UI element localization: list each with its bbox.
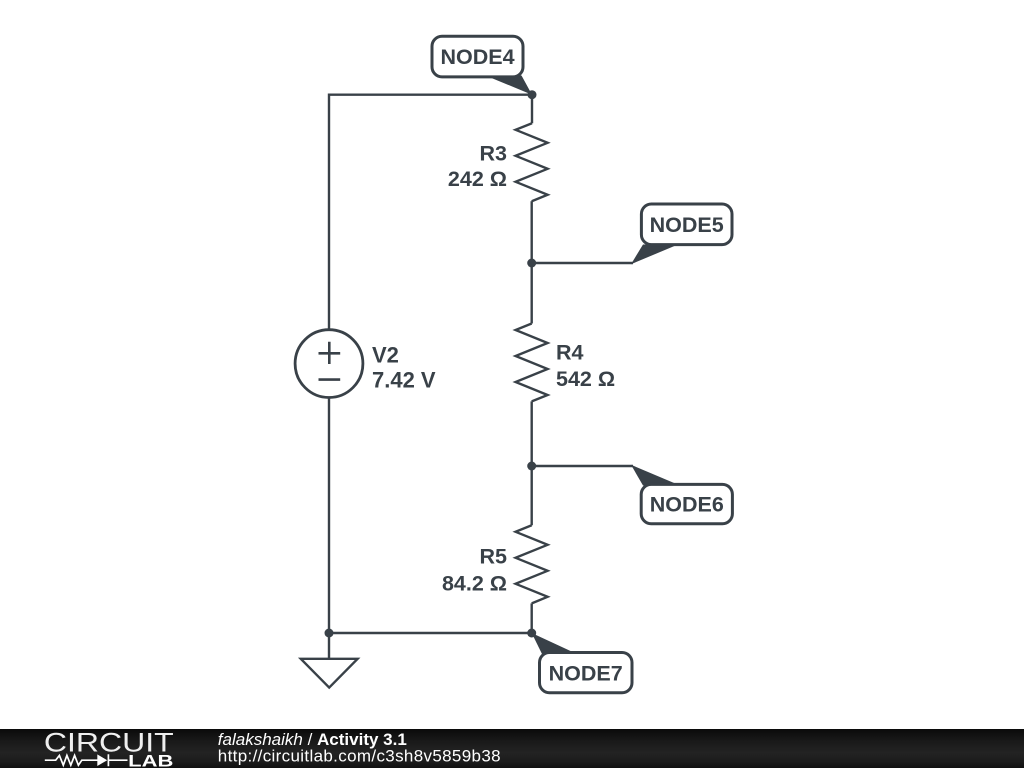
wire NODE6 stub	[532, 465, 633, 467]
svg-text:LAB: LAB	[128, 752, 173, 768]
resistor R4	[516, 324, 548, 402]
junction node dot NODE5	[527, 259, 536, 268]
svg-text:NODE5: NODE5	[650, 213, 724, 237]
wire between NODE6 and R5	[531, 466, 533, 525]
resistor R3	[516, 123, 548, 201]
voltage source V2 circle	[295, 330, 363, 398]
junction node dot NODE4	[528, 90, 537, 99]
wire R3 to NODE5	[531, 201, 533, 263]
svg-text:R5: R5	[480, 545, 508, 569]
node flag NODE5	[631, 204, 732, 264]
svg-text:R4: R4	[556, 341, 584, 365]
wire top horizontal from source to NODE4	[329, 93, 532, 95]
junction node dot NODE6	[527, 462, 536, 471]
V2 plus sign	[319, 342, 341, 364]
wire NODE5 stub	[532, 262, 633, 264]
svg-text:R3: R3	[480, 142, 508, 166]
CircuitLab logo resistor-diode squiggle	[45, 754, 128, 766]
wire left vertical upper (source + to top)	[328, 94, 330, 330]
svg-text:242 Ω: 242 Ω	[448, 167, 507, 191]
svg-text:NODE7: NODE7	[549, 662, 623, 686]
wire between NODE5 and R4	[531, 263, 533, 324]
node flag NODE7	[532, 633, 632, 693]
wire R5 to NODE7	[531, 603, 533, 633]
svg-text:84.2 Ω: 84.2 Ω	[442, 572, 507, 596]
resistor R5	[516, 525, 548, 603]
ground	[301, 659, 358, 688]
wire bottom horizontal	[329, 632, 532, 634]
svg-text:http://circuitlab.com/c3sh8v58: http://circuitlab.com/c3sh8v5859b38	[218, 747, 501, 766]
svg-text:V2: V2	[372, 343, 399, 368]
junction node dot NODE7	[527, 629, 536, 638]
svg-text:7.42 V: 7.42 V	[372, 368, 436, 393]
node flag NODE4	[432, 36, 532, 94]
junction node dot at ground corner	[325, 629, 334, 638]
node flag NODE6	[631, 465, 732, 524]
wire left vertical lower (source - to bottom)	[328, 397, 330, 633]
wire to ground	[328, 633, 330, 659]
footer bar	[0, 729, 1024, 768]
V2 minus sign	[319, 378, 341, 381]
wire R4 to NODE6	[531, 401, 533, 466]
wire NODE4 to R3	[531, 95, 533, 124]
svg-text:NODE6: NODE6	[650, 493, 724, 517]
svg-text:NODE4: NODE4	[440, 45, 514, 69]
svg-text:542 Ω: 542 Ω	[556, 367, 615, 391]
